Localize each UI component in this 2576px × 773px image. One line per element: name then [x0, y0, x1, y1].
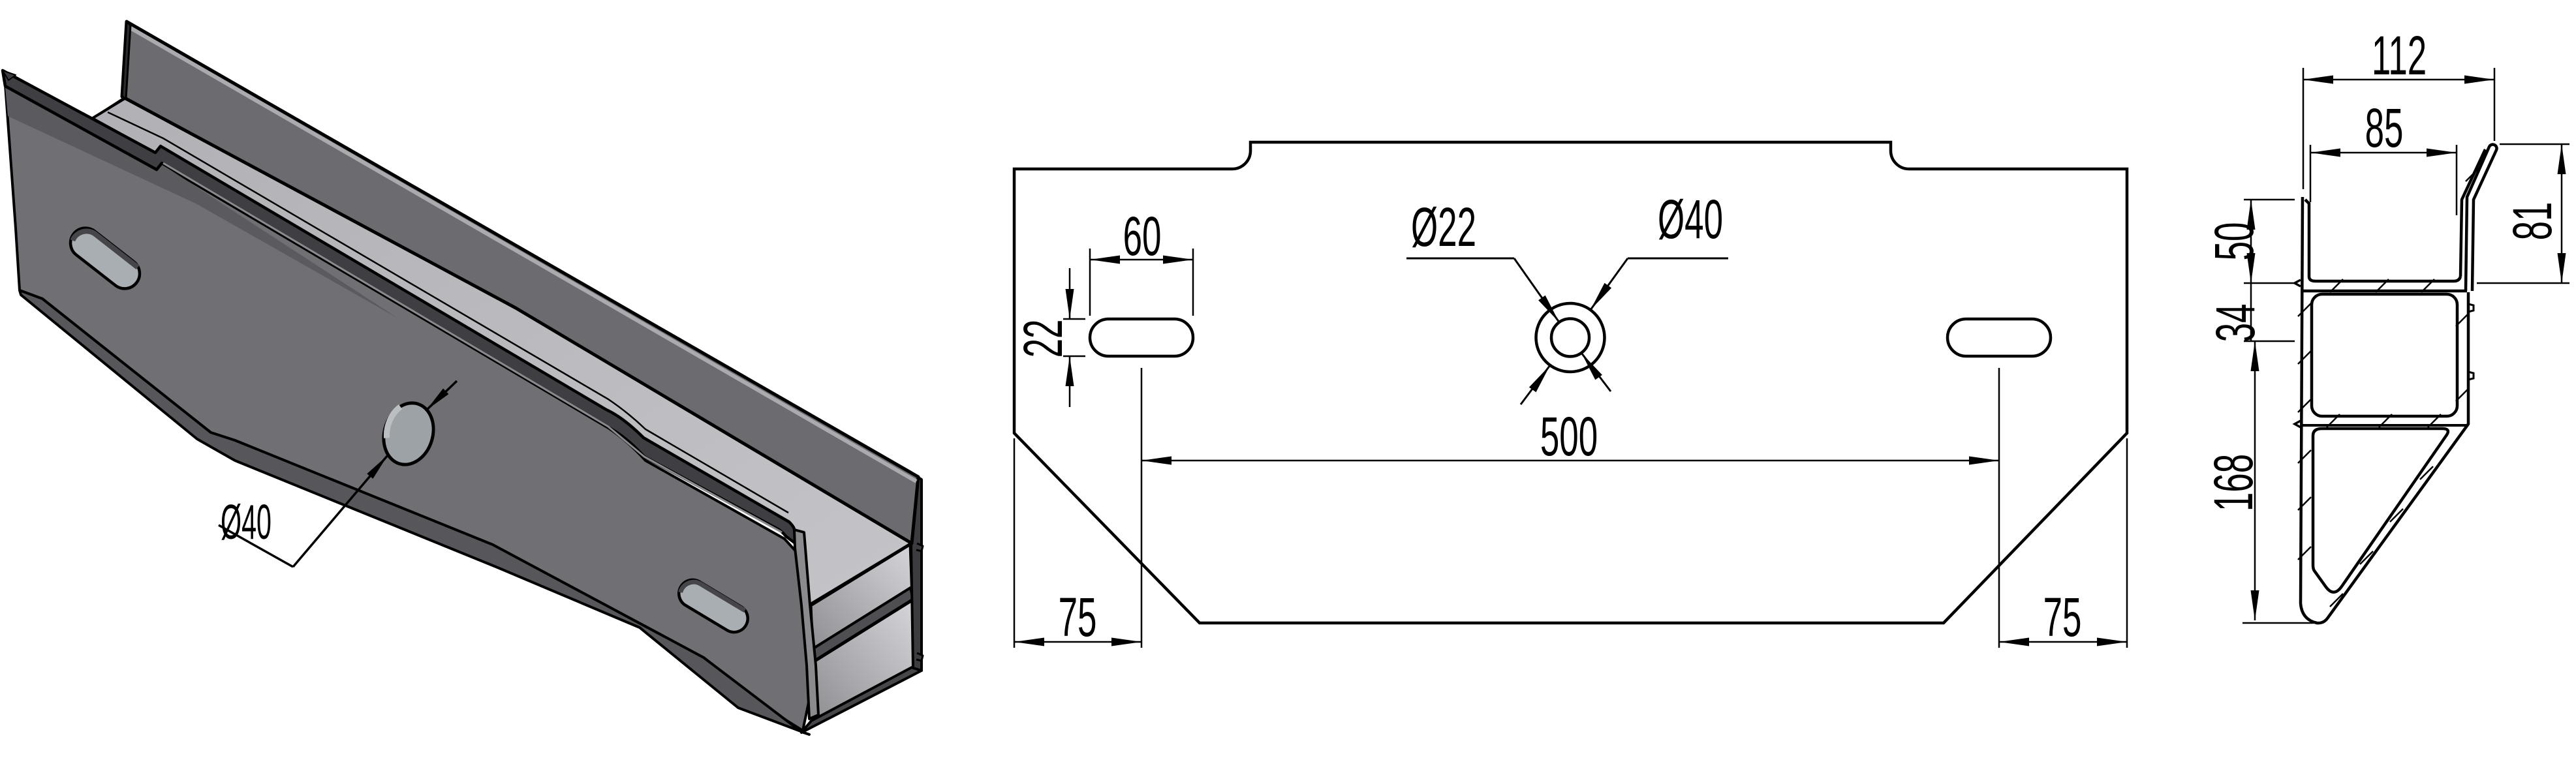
right wall inner — [2460, 149, 2485, 277]
triangle chamber — [2313, 429, 2448, 592]
floor near edge — [810, 543, 912, 605]
bottom face band — [20, 290, 809, 735]
hole outer Ø40 — [1536, 303, 1605, 372]
svg-text:50: 50 — [2203, 222, 2265, 261]
chamber divider end face — [811, 588, 913, 663]
left slot — [1090, 319, 1193, 356]
svg-text:Ø40: Ø40 — [221, 494, 272, 549]
svg-text:75: 75 — [2043, 586, 2082, 648]
leader Ø40 3d — [219, 525, 293, 567]
dim 168 — [2242, 622, 2314, 624]
back flange face band — [122, 22, 918, 543]
3D isometric view of rail — [3, 22, 923, 735]
hem highlight — [163, 163, 782, 532]
near end upper chamber — [811, 544, 912, 652]
dim 112 — [2303, 68, 2304, 189]
flange top edge highlight — [131, 28, 916, 481]
svg-text:75: 75 — [1059, 586, 1097, 648]
dim 75 right — [2126, 438, 2128, 648]
section view — [2301, 144, 2497, 623]
near slot — [674, 575, 753, 637]
channel floor — [93, 98, 912, 605]
bottom wall end face — [801, 667, 922, 733]
channel floor — [2309, 277, 2460, 281]
svg-text:500: 500 — [1540, 405, 1598, 467]
hole inner Ø22 — [1551, 319, 1589, 357]
hole Ø40 — [377, 397, 441, 470]
dim 60 — [1089, 249, 1091, 316]
right flange — [2466, 144, 2497, 291]
svg-text:112: 112 — [2372, 24, 2427, 86]
back flange far end edge — [122, 22, 131, 99]
left wall outer — [2301, 197, 2468, 623]
svg-text:Ø40: Ø40 — [1658, 188, 1723, 250]
dim 34 — [2244, 341, 2295, 342]
wall serrations — [2295, 280, 2301, 427]
svg-text:81: 81 — [2501, 202, 2563, 241]
far slot — [65, 222, 146, 294]
dim 500 — [1141, 368, 1143, 648]
near end inner wall strip — [794, 530, 818, 719]
floor fold line — [108, 112, 788, 513]
hatch ticks — [2298, 168, 2479, 607]
svg-text:Ø22: Ø22 — [1411, 196, 1476, 258]
dim 50 — [2244, 199, 2295, 201]
serration nubs — [916, 543, 923, 661]
left flange inner — [2305, 200, 2309, 277]
dim 81 — [2500, 144, 2569, 145]
floor far edge — [93, 97, 128, 118]
dim 75 left — [1014, 438, 1016, 648]
svg-text:60: 60 — [1123, 205, 1162, 267]
svg-text:168: 168 — [2202, 454, 2264, 511]
box chamber — [2312, 294, 2457, 416]
front wall top hem — [3, 70, 796, 544]
dim 85 — [2310, 145, 2312, 202]
front face — [5, 85, 813, 731]
right slot — [1948, 319, 2051, 356]
svg-text:85: 85 — [2365, 97, 2404, 159]
svg-text:22: 22 — [1012, 320, 1074, 358]
svg-text:34: 34 — [2204, 304, 2266, 342]
plan view outline — [1014, 142, 2127, 623]
far hem lip — [3, 70, 16, 80]
near end lower chamber — [811, 599, 914, 720]
hem shadow — [5, 87, 398, 318]
right wall end face — [911, 475, 922, 671]
dim 22 — [1063, 318, 1085, 320]
